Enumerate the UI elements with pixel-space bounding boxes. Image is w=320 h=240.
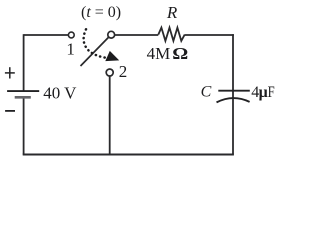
svg-text:2: 2 — [119, 62, 128, 81]
switch S1 terminal 1 circle — [68, 32, 74, 38]
svg-text:F: F — [268, 84, 275, 101]
capacitor C curved plate — [217, 98, 250, 102]
svg-text:(t = 0): (t = 0) — [81, 4, 121, 21]
svg-text:1: 1 — [66, 40, 75, 59]
wire left vertical upper (to battery + plate) — [23, 34, 25, 91]
wire bottom — [23, 154, 234, 156]
switch throw dotted arc — [84, 29, 105, 57]
wire middle vertical (terminal 2 down to bottom) — [109, 76, 111, 154]
svg-text:Ω: Ω — [172, 44, 188, 63]
battery V1 40V long plate — [7, 90, 39, 92]
switch S1 arm — [81, 37, 109, 66]
wire left vertical lower (battery - to bottom) — [23, 97, 25, 154]
wire top-left segment — [24, 34, 69, 36]
svg-text:4M: 4M — [147, 44, 171, 63]
battery minus sign — [5, 110, 15, 112]
svg-text:μ: μ — [259, 84, 268, 101]
switch throw arrowhead — [105, 51, 119, 61]
battery plus sign — [5, 72, 15, 74]
capacitor C straight plate — [218, 90, 250, 92]
svg-text:R: R — [166, 3, 178, 22]
wire top middle (switch pivot to resistor) — [115, 34, 159, 36]
wire top right (resistor to corner) — [185, 34, 234, 36]
svg-text:40 V: 40 V — [43, 84, 77, 103]
switch S1 terminal 2 circle — [106, 69, 113, 76]
resistor R zigzag — [158, 28, 184, 41]
switch S1 pivot circle — [108, 31, 115, 38]
svg-text:C: C — [201, 84, 212, 101]
battery V1 short plate — [15, 96, 31, 99]
wire right vertical — [232, 34, 234, 154]
